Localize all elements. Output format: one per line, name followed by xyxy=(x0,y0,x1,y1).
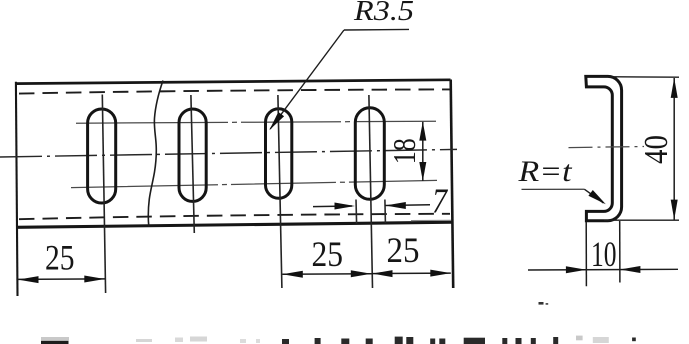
dimension 10: right extension line xyxy=(619,221,621,283)
label R=t: leader shoulder xyxy=(522,188,585,190)
dimension 25 left: arrows xyxy=(18,276,39,283)
strip bottom edge xyxy=(16,222,453,227)
dimension 40: arrows xyxy=(671,78,678,98)
slot tangent line top xyxy=(76,121,436,123)
dimension 25 right 1: arrows xyxy=(282,271,303,278)
label R3.5: leader shoulder xyxy=(344,28,409,31)
dimension 7: right shaft and arrow xyxy=(385,204,430,207)
section centre line xyxy=(569,147,645,148)
strip left end / extension line xyxy=(16,82,18,296)
strip right end / extension line xyxy=(451,80,454,289)
slot 3 xyxy=(266,109,292,199)
channel section outline xyxy=(586,76,622,220)
slot 2 xyxy=(179,109,206,201)
dimension 25 left: line xyxy=(18,278,106,281)
slot 4 centre line xyxy=(369,95,373,288)
slot tangent line bottom xyxy=(71,180,437,187)
stray speck marks xyxy=(539,302,544,305)
dimension 40: line xyxy=(673,78,675,220)
slot 4 left edge extension line xyxy=(355,200,358,224)
strip top edge xyxy=(15,80,451,84)
dimension 25 right 2: arrows xyxy=(372,270,393,277)
svg-text:10: 10 xyxy=(591,234,617,274)
dimension 25 right 1: line xyxy=(282,273,371,276)
svg-text:18: 18 xyxy=(386,138,422,164)
bottom edge scan ghost xyxy=(411,219,451,221)
svg-text:R3.5: R3.5 xyxy=(353,0,414,27)
slot 1 xyxy=(88,109,116,203)
slot 4 xyxy=(355,108,384,200)
dimension 25 right 2: line xyxy=(372,272,451,275)
bottom bend dashed line xyxy=(19,214,450,219)
caption: character 图 top xyxy=(41,337,69,341)
dimension 18: line xyxy=(422,122,424,181)
slot 1 centre line xyxy=(102,95,105,294)
dimension 40: bottom extension line xyxy=(604,219,679,221)
dimension 40: top extension line xyxy=(600,76,679,79)
label R3.5: leader diagonal xyxy=(270,30,344,129)
label R3.5: arrowhead xyxy=(269,112,284,130)
caption: faint figure number tops xyxy=(136,339,152,342)
label R=t: leader diagonal xyxy=(585,189,604,203)
svg-text:25: 25 xyxy=(45,238,75,278)
caption: title character tops xyxy=(282,339,289,344)
label R=t: arrowhead xyxy=(588,190,605,204)
svg-text:40: 40 xyxy=(638,135,675,164)
horizontal centre line xyxy=(0,149,457,157)
svg-text:7: 7 xyxy=(432,182,448,221)
svg-text:R=t: R=t xyxy=(517,155,572,188)
dimension 10: line xyxy=(528,268,678,271)
dimension 7: left shaft and arrow xyxy=(313,205,352,208)
slot 2 centre line xyxy=(191,95,194,233)
break wavy line xyxy=(148,81,163,227)
dimension 10: left extension line xyxy=(585,222,587,286)
dimension 10: arrows xyxy=(566,266,587,273)
svg-text:25: 25 xyxy=(387,230,420,270)
svg-text:25: 25 xyxy=(312,234,344,274)
slot 4 right edge extension line xyxy=(384,200,387,223)
slot 3 centre line xyxy=(278,95,282,288)
dimension 18: arrows xyxy=(419,122,426,141)
top bend dashed line xyxy=(19,89,450,93)
